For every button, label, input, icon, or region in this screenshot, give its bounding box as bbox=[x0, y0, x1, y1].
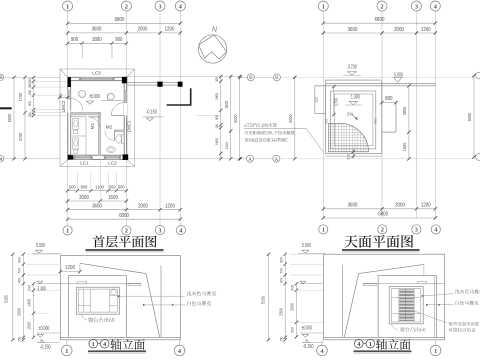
svg-text:900: 900 bbox=[28, 101, 32, 106]
rain pipe leader bbox=[244, 127, 306, 129]
roof drain dim 300 bbox=[352, 149, 354, 159]
section cut thick mark bbox=[0, 107, 12, 109]
svg-text:1600: 1600 bbox=[224, 141, 229, 149]
grid bubble A left edge bbox=[0, 156, 4, 162]
svg-text:180: 180 bbox=[28, 112, 32, 117]
roof dim 3600/2000/1200 top bbox=[323, 32, 435, 34]
elevation 4-1 ground line bbox=[324, 336, 445, 338]
svg-text:1: 1 bbox=[322, 227, 325, 234]
roof grid bubble 4 bottom bbox=[431, 225, 440, 234]
bottom dim row2 2000/1600 bbox=[68, 200, 127, 202]
roof grid bubble A2 bbox=[273, 155, 280, 162]
svg-text:800: 800 bbox=[81, 185, 88, 191]
toilet stalls outline bbox=[71, 117, 86, 156]
interior wall M2 side bbox=[115, 130, 125, 132]
svg-text:500: 500 bbox=[59, 93, 63, 98]
svg-text:2: 2 bbox=[381, 227, 384, 234]
roof right dim 5000 bbox=[473, 76, 475, 158]
svg-text:LMC1: LMC1 bbox=[126, 120, 131, 132]
svg-text:400: 400 bbox=[27, 285, 32, 291]
svg-text:5000: 5000 bbox=[467, 112, 472, 121]
svg-text:600: 600 bbox=[69, 185, 76, 191]
svg-text:2: 2 bbox=[125, 3, 128, 10]
elevation 4-1 louvre window bbox=[389, 287, 423, 324]
roof canopy top edge bbox=[326, 79, 381, 81]
svg-text:300: 300 bbox=[215, 77, 219, 82]
roof grid bubble 2 bottom bbox=[378, 225, 387, 234]
interior partition vertical bbox=[98, 112, 100, 155]
svg-text:5000: 5000 bbox=[233, 114, 238, 123]
left extension lines bbox=[30, 80, 66, 82]
counter line bbox=[101, 100, 125, 102]
grid bubble 4 top bbox=[175, 1, 185, 11]
door-window LMC1 window band bbox=[124, 91, 127, 103]
roof grid bubble 1 top bbox=[318, 1, 328, 11]
svg-text:-0.150: -0.150 bbox=[40, 345, 51, 351]
north arrow bbox=[198, 35, 226, 63]
elevation 1-4 ledge line 3.300 bbox=[60, 283, 141, 285]
elevation 4-1 extension lines bbox=[290, 253, 324, 255]
level -0.150 elevation 1-4 bbox=[38, 339, 44, 342]
grid line A row (left plan) bbox=[0, 158, 60, 160]
left dim chain 1700/2700 bbox=[24, 77, 26, 159]
title elevation 4-1 bbox=[355, 339, 364, 348]
svg-text:1: 1 bbox=[65, 348, 68, 355]
roof bottom dim 3600/2000/1200 bbox=[323, 208, 435, 210]
svg-text:1: 1 bbox=[434, 348, 437, 355]
grid line A row (roof plan) bbox=[241, 158, 247, 160]
grid line B row (roof plan) bbox=[241, 76, 248, 78]
dim 1700 inner bbox=[333, 87, 335, 115]
grid bubble B left edge bbox=[0, 74, 4, 80]
svg-text:A: A bbox=[275, 157, 279, 163]
dim 800 porch bbox=[382, 102, 396, 104]
right dim chain 3400 bbox=[230, 76, 232, 158]
squat pan 2 bbox=[73, 138, 79, 149]
dim line 3600/2000/1200 top bbox=[68, 32, 181, 34]
svg-text:2000: 2000 bbox=[394, 27, 404, 33]
door-window LMC2 window band bbox=[68, 91, 71, 100]
column grid1-A bbox=[68, 155, 74, 160]
right wall bbox=[124, 77, 127, 159]
svg-text:1600: 1600 bbox=[402, 142, 407, 151]
svg-text:600: 600 bbox=[118, 185, 125, 191]
dim 2800/1600 chain bbox=[408, 86, 410, 159]
wash basin 1 bbox=[79, 91, 86, 98]
svg-text:5.000: 5.000 bbox=[394, 73, 403, 79]
svg-text:180: 180 bbox=[215, 124, 219, 129]
elevation 4-1 dim chain segments bbox=[284, 254, 286, 340]
svg-text:300: 300 bbox=[324, 118, 329, 124]
elevation 4-1 gate post bbox=[342, 266, 344, 338]
column grid3 fence bbox=[157, 82, 162, 87]
roof outer rect bbox=[326, 80, 382, 154]
grid line 4 (floor plan) bbox=[179, 11, 181, 226]
svg-text:2: 2 bbox=[380, 3, 383, 10]
svg-text:-0.150: -0.150 bbox=[146, 110, 157, 116]
wash basin 2 bbox=[108, 93, 115, 100]
extension line mid right bbox=[196, 115, 221, 117]
leader light grey mosaic right bbox=[422, 295, 424, 297]
svg-text:LMC2: LMC2 bbox=[61, 100, 66, 112]
level -0.150 elevation 4-1 bbox=[303, 339, 309, 342]
svg-text:B: B bbox=[249, 75, 253, 81]
svg-text:1200: 1200 bbox=[165, 27, 175, 33]
right dim chain of floor plan (300/1800/900/180/1600) bbox=[220, 76, 222, 158]
elevation 4-1 bubble stub 4 bbox=[321, 340, 323, 346]
roof grid bubble B1 bbox=[247, 74, 254, 81]
left dim chain 5000 bbox=[13, 77, 15, 159]
elevation 4-1 dim chain 5150 bbox=[268, 254, 270, 340]
roof bottom dim 6800 bbox=[323, 217, 435, 219]
elevation 1-4 canopy slope bbox=[80, 263, 146, 273]
svg-text:3: 3 bbox=[158, 3, 161, 10]
svg-text:400: 400 bbox=[278, 277, 283, 283]
roof dim 6800 top bbox=[323, 22, 435, 24]
roof left dim 5000 bbox=[294, 77, 296, 159]
svg-text:2000: 2000 bbox=[138, 27, 148, 33]
svg-text:900: 900 bbox=[290, 327, 295, 333]
svg-text:LC3: LC3 bbox=[92, 71, 101, 76]
column grid2-A bbox=[123, 154, 129, 160]
louvre slats bbox=[399, 289, 414, 291]
svg-text:1600: 1600 bbox=[215, 138, 219, 145]
roof grid bubble B2 bbox=[273, 74, 280, 81]
grid line 1 (roof plan) bbox=[322, 11, 324, 219]
door M1 swing bbox=[89, 117, 101, 129]
dim 500 LMC2 bbox=[59, 96, 67, 98]
svg-text:M1: M1 bbox=[90, 122, 95, 129]
roof grid bubble 3 bottom bbox=[412, 225, 421, 234]
svg-text:2000: 2000 bbox=[79, 195, 89, 201]
svg-text:900: 900 bbox=[71, 37, 78, 43]
svg-text:1200: 1200 bbox=[65, 265, 75, 271]
roof grid bubble 2 top bbox=[377, 1, 387, 11]
svg-text:4: 4 bbox=[357, 342, 360, 348]
svg-text:3600: 3600 bbox=[348, 202, 358, 208]
bottom dim row4 6800 bbox=[68, 218, 181, 220]
elevation 1-4 dim chain 5150 bbox=[12, 254, 14, 340]
svg-text:5.000: 5.000 bbox=[302, 243, 311, 249]
svg-text:600: 600 bbox=[16, 257, 21, 263]
rain drain box left bbox=[315, 86, 326, 114]
svg-text:150: 150 bbox=[17, 337, 21, 342]
svg-text:300: 300 bbox=[372, 118, 377, 124]
svg-text:5000: 5000 bbox=[7, 113, 12, 122]
grid line B row (left plan) bbox=[0, 76, 60, 78]
fence wall to grid4 bbox=[127, 82, 182, 84]
svg-text:3600: 3600 bbox=[92, 204, 102, 210]
elevation 1-4 extension lines bbox=[26, 253, 60, 255]
svg-text:1500: 1500 bbox=[27, 322, 32, 330]
svg-text:1700: 1700 bbox=[18, 92, 23, 101]
roof parapet innermost rect bbox=[334, 94, 373, 146]
elevation 4-1 inner dim chain bbox=[295, 284, 297, 338]
svg-text:150: 150 bbox=[279, 337, 283, 342]
elevation 4-1 grid bubble 4 bbox=[317, 345, 328, 356]
grid bubble 1 bottom bbox=[63, 226, 72, 235]
svg-text:5150: 5150 bbox=[261, 295, 266, 304]
level 3.300 elevation 4-1 bbox=[299, 283, 324, 285]
elevation 1-4 dim chain segments bbox=[22, 254, 24, 340]
svg-text:4: 4 bbox=[103, 342, 106, 348]
svg-text:6800: 6800 bbox=[378, 212, 388, 218]
window LC3 bbox=[81, 77, 113, 80]
grid line 2 (floor plan) bbox=[125, 11, 127, 226]
svg-text:600: 600 bbox=[278, 257, 283, 263]
svg-text:3300: 3300 bbox=[278, 308, 283, 316]
elevation 1-4 steep wall slope bbox=[146, 274, 160, 338]
elevation 1-4 gate post bbox=[160, 266, 162, 338]
svg-text:LC2: LC2 bbox=[108, 161, 117, 166]
bottom extension stubs bbox=[76, 172, 78, 192]
svg-text:A: A bbox=[248, 157, 252, 163]
svg-text:3600: 3600 bbox=[92, 27, 102, 33]
sill note leader right bbox=[391, 324, 397, 330]
dim 1200 canopy bbox=[60, 271, 80, 273]
elevation 4-1 bubble stub 1 bbox=[435, 340, 437, 346]
svg-text:±0.000: ±0.000 bbox=[89, 94, 100, 100]
porch slab edge bbox=[395, 102, 397, 133]
svg-text:5000: 5000 bbox=[288, 114, 293, 123]
svg-text:1.300: 1.300 bbox=[351, 95, 360, 101]
grid bubble 3 top bbox=[155, 1, 165, 11]
elevation 1-4 outer box bbox=[60, 256, 180, 340]
svg-text:800: 800 bbox=[385, 96, 392, 102]
grid line 3 (floor plan) bbox=[159, 11, 161, 226]
svg-text:900: 900 bbox=[115, 37, 122, 43]
elevation 1-4 main block bbox=[68, 276, 126, 338]
svg-text:1200: 1200 bbox=[165, 204, 175, 210]
roof parapet inner rect bbox=[331, 91, 376, 149]
svg-text:3: 3 bbox=[415, 3, 418, 10]
svg-text:900: 900 bbox=[215, 115, 219, 120]
svg-text:3600: 3600 bbox=[348, 27, 358, 33]
eave corner diagonals bbox=[60, 69, 68, 77]
interior partition horizontal bbox=[71, 112, 101, 115]
bottom dim row3 3600/2000/1200 bbox=[68, 209, 181, 211]
window LC1 bbox=[75, 156, 90, 159]
grid bubble 3 bottom bbox=[155, 225, 164, 234]
elevation 4-1 steep wall slope bbox=[344, 274, 358, 338]
svg-text:N: N bbox=[212, 25, 218, 34]
svg-text:5.000: 5.000 bbox=[36, 243, 45, 249]
svg-text:B: B bbox=[275, 75, 279, 81]
left wall bbox=[68, 77, 71, 159]
svg-text:6800: 6800 bbox=[119, 213, 129, 219]
eave outline rect bbox=[60, 69, 134, 166]
svg-text:A: A bbox=[0, 157, 3, 163]
grid line 2 (roof plan) bbox=[381, 11, 383, 219]
svg-text:500: 500 bbox=[28, 90, 32, 95]
leader white mosaic right bbox=[426, 304, 428, 306]
elevation 4-1 main block bbox=[378, 276, 436, 338]
bottom dim row1 600/800/1100/500/600 bbox=[68, 190, 127, 192]
svg-text:2: 2 bbox=[125, 228, 128, 235]
dim line 6800 top bbox=[68, 22, 181, 24]
elevation 1-4 window bbox=[76, 287, 119, 314]
window centerline stubs bbox=[81, 45, 83, 58]
svg-text:500: 500 bbox=[109, 185, 116, 191]
svg-text:1800: 1800 bbox=[92, 37, 102, 43]
grid bubble 2 top bbox=[121, 1, 131, 11]
squat pan 1 bbox=[73, 119, 79, 130]
svg-text:1200: 1200 bbox=[421, 27, 431, 33]
svg-text:±0.000: ±0.000 bbox=[301, 325, 312, 331]
svg-text:3.700: 3.700 bbox=[348, 64, 357, 70]
svg-text:1400: 1400 bbox=[27, 298, 32, 306]
svg-text:1: 1 bbox=[66, 228, 69, 235]
elevation 1-4 bubble stub 4 bbox=[179, 340, 181, 346]
svg-text:6800: 6800 bbox=[115, 17, 125, 23]
svg-text:1: 1 bbox=[369, 342, 372, 348]
svg-text:300: 300 bbox=[346, 153, 351, 159]
title first floor plan bbox=[93, 235, 157, 247]
elevation 1-4 grid bubble 1 bbox=[62, 345, 73, 356]
hatched drain area bbox=[328, 123, 368, 152]
svg-text:500: 500 bbox=[314, 96, 319, 102]
grid line 4 (roof plan) bbox=[434, 11, 436, 219]
svg-text:1200: 1200 bbox=[421, 202, 431, 208]
svg-text:3.300: 3.300 bbox=[37, 287, 46, 293]
svg-text:3400: 3400 bbox=[224, 100, 229, 108]
screen wall thick L bbox=[167, 88, 191, 105]
extract fan circle bbox=[111, 290, 116, 295]
leader light grey mosaic bbox=[118, 295, 120, 297]
grid bubble 4 bottom bbox=[176, 225, 185, 234]
column grid4 fence bbox=[178, 82, 183, 87]
elevation 4-1 outer box bbox=[324, 254, 445, 340]
svg-text:1800: 1800 bbox=[215, 93, 219, 100]
svg-text:1600: 1600 bbox=[108, 195, 118, 201]
right dim chain 5000 bbox=[239, 76, 241, 158]
svg-text:2800: 2800 bbox=[402, 106, 407, 115]
roof grid bubble A1 bbox=[247, 155, 254, 162]
grid line 3 (roof plan) bbox=[416, 11, 418, 219]
svg-text:±0.000: ±0.000 bbox=[39, 326, 50, 332]
elevation 4-1 ledge line 3.300 bbox=[363, 283, 444, 285]
door LMC1 swing bbox=[111, 103, 124, 116]
leader white mosaic bbox=[143, 304, 145, 306]
top wall bbox=[68, 77, 127, 80]
svg-text:240: 240 bbox=[28, 78, 32, 83]
svg-text:1100: 1100 bbox=[95, 185, 104, 191]
svg-text:5150: 5150 bbox=[4, 294, 9, 303]
svg-text:700: 700 bbox=[278, 267, 283, 273]
level 3.300 elevation 1-4 bbox=[36, 283, 61, 285]
svg-text:2700: 2700 bbox=[18, 132, 23, 141]
mop sink oval bbox=[107, 147, 116, 153]
roof grid bubble 4 top bbox=[430, 1, 440, 11]
column grid2-B bbox=[122, 77, 127, 83]
svg-text:400: 400 bbox=[290, 284, 295, 290]
roof grid bubble 3 top bbox=[412, 1, 422, 11]
elevation 4-1 grid bubble 1 bbox=[430, 345, 441, 356]
svg-text:2000: 2000 bbox=[290, 303, 295, 311]
sill note leader bbox=[82, 314, 88, 320]
svg-text:1700: 1700 bbox=[333, 97, 338, 106]
svg-text:2000: 2000 bbox=[138, 204, 148, 210]
svg-text:1: 1 bbox=[92, 342, 95, 348]
grid bubble 2 bottom bbox=[122, 226, 131, 235]
roof grid bubble 1 bottom bbox=[319, 225, 328, 234]
door M2 swing bbox=[105, 131, 115, 141]
title roof plan bbox=[344, 235, 413, 248]
svg-text:400: 400 bbox=[16, 277, 21, 283]
column grid1-B bbox=[68, 77, 71, 87]
left small dim chain bbox=[33, 77, 35, 115]
elevation 1-4 bubble stub 1 bbox=[66, 340, 68, 346]
grid bubble 1 top bbox=[63, 1, 73, 11]
svg-text:3: 3 bbox=[415, 227, 418, 234]
roof bottom outer edge bbox=[326, 155, 382, 157]
svg-text:-0.150: -0.150 bbox=[303, 344, 314, 350]
door LMC2 swing bbox=[71, 99, 83, 111]
elevation 4-1 canopy slope bbox=[359, 264, 424, 273]
door opening gaps bbox=[68, 90, 71, 112]
rain pipe annotation text bbox=[245, 123, 277, 128]
roof canopy double line bbox=[326, 83, 436, 85]
roof grid bubble B right edge bbox=[476, 72, 480, 79]
svg-text:M2: M2 bbox=[106, 125, 113, 131]
svg-text:3300: 3300 bbox=[16, 308, 21, 316]
svg-text:700: 700 bbox=[16, 267, 21, 273]
svg-text:2%: 2% bbox=[347, 111, 353, 116]
roof grid bubble A right edge bbox=[476, 154, 480, 161]
grid line 1 (floor plan) bbox=[67, 11, 69, 226]
svg-text:6800: 6800 bbox=[375, 17, 385, 23]
title elevation 1-4 bbox=[89, 339, 98, 348]
svg-text:LC1: LC1 bbox=[80, 161, 89, 166]
window LC2 bbox=[106, 156, 120, 159]
louvre note leader bbox=[410, 309, 448, 323]
svg-text:2000: 2000 bbox=[395, 202, 405, 208]
elevation 1-4 inner dim chain bbox=[33, 284, 35, 338]
bottom wall bbox=[68, 155, 127, 159]
svg-text:3: 3 bbox=[158, 227, 161, 234]
elevation 1-4 ground line bbox=[60, 336, 180, 338]
elevation 1-4 grid bubble 4 bbox=[174, 345, 185, 356]
toilet WC bbox=[122, 134, 125, 143]
dim line 900/1800/900 top bbox=[68, 42, 127, 44]
svg-text:1: 1 bbox=[322, 3, 325, 10]
svg-text:1: 1 bbox=[66, 3, 69, 10]
